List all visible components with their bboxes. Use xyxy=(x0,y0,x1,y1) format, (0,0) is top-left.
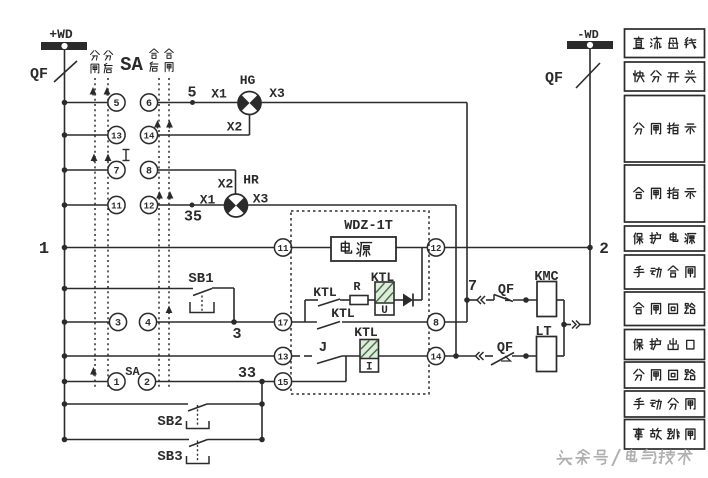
svg-text:KTL: KTL xyxy=(354,325,378,340)
svg-text:X3: X3 xyxy=(269,86,285,101)
svg-text:3: 3 xyxy=(115,318,121,329)
svg-text:15: 15 xyxy=(278,378,289,388)
svg-text:SB3: SB3 xyxy=(157,449,182,465)
svg-text:17: 17 xyxy=(278,318,289,328)
svg-text:I: I xyxy=(366,361,373,373)
svg-text:13: 13 xyxy=(111,131,122,141)
svg-text:12: 12 xyxy=(144,201,155,211)
svg-text:11: 11 xyxy=(278,244,289,254)
svg-text:7: 7 xyxy=(468,278,477,295)
svg-text:R: R xyxy=(353,280,361,294)
svg-text:U: U xyxy=(381,305,388,317)
svg-text:5: 5 xyxy=(187,85,196,102)
svg-text:4: 4 xyxy=(145,318,151,329)
svg-text:3: 3 xyxy=(232,326,241,343)
svg-text:1: 1 xyxy=(113,378,119,389)
svg-text:5: 5 xyxy=(113,99,119,110)
svg-text:14: 14 xyxy=(431,352,442,362)
svg-text:QF: QF xyxy=(497,341,513,356)
svg-text:X1: X1 xyxy=(211,87,227,102)
svg-text:SA: SA xyxy=(120,54,143,76)
svg-text:SA: SA xyxy=(125,365,140,379)
svg-text:X2: X2 xyxy=(218,177,234,192)
svg-text:12: 12 xyxy=(431,244,442,254)
svg-text:33: 33 xyxy=(238,365,256,382)
svg-text:QF: QF xyxy=(30,66,48,83)
svg-text:11: 11 xyxy=(111,201,122,211)
svg-text:KMC: KMC xyxy=(534,270,558,285)
svg-text:WDZ-1T: WDZ-1T xyxy=(344,219,393,234)
svg-text:HG: HG xyxy=(240,73,256,88)
svg-text:KTL: KTL xyxy=(331,306,355,321)
svg-text:7: 7 xyxy=(113,166,119,177)
svg-text:1: 1 xyxy=(39,240,49,259)
svg-text:QF: QF xyxy=(498,283,514,298)
svg-text:2: 2 xyxy=(144,378,150,389)
svg-text:35: 35 xyxy=(184,209,202,226)
svg-text:X2: X2 xyxy=(227,120,243,135)
svg-text:QF: QF xyxy=(545,70,563,87)
svg-text:SB1: SB1 xyxy=(188,271,213,287)
svg-text:+WD: +WD xyxy=(49,27,73,42)
svg-text:-WD: -WD xyxy=(577,28,599,42)
svg-text:14: 14 xyxy=(144,131,155,141)
svg-text:8: 8 xyxy=(433,318,439,329)
svg-text:J: J xyxy=(319,340,327,356)
svg-text:6: 6 xyxy=(146,99,152,110)
svg-text:SB2: SB2 xyxy=(157,414,182,430)
svg-text:LT: LT xyxy=(535,325,551,340)
svg-text:KTL: KTL xyxy=(313,285,337,300)
svg-text:8: 8 xyxy=(146,166,152,177)
svg-text:2: 2 xyxy=(599,240,609,258)
svg-text:HR: HR xyxy=(243,173,259,188)
svg-text:13: 13 xyxy=(278,352,289,362)
svg-text:X1: X1 xyxy=(200,193,216,208)
